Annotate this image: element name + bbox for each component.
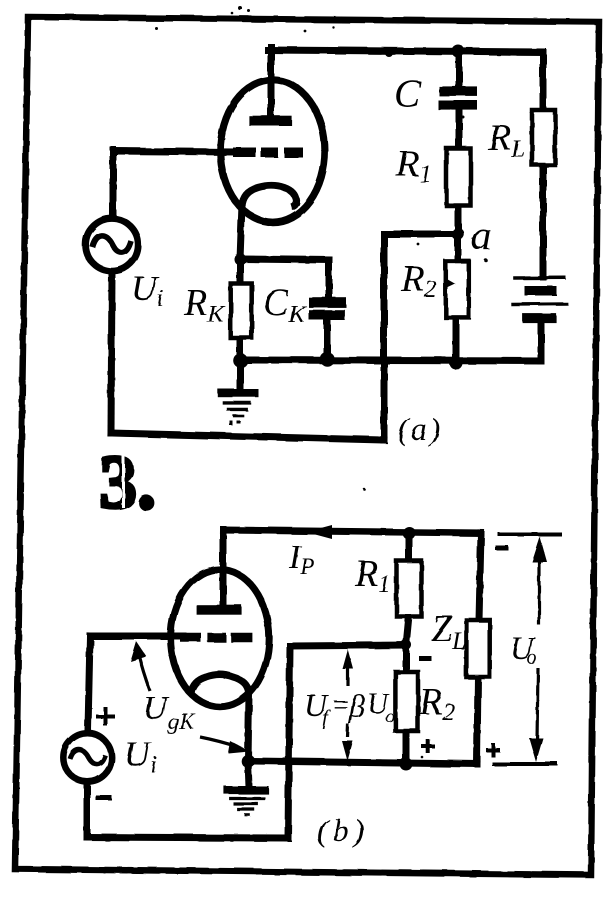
svg-text:(a): (a) <box>398 411 443 447</box>
svg-text:β: β <box>348 688 365 724</box>
svg-text:a: a <box>471 212 492 258</box>
svg-text:C: C <box>394 71 422 116</box>
svg-text:(b): (b) <box>317 812 369 848</box>
svg-text:=: = <box>331 690 350 721</box>
svg-text:3.: 3. <box>99 441 156 525</box>
svg-text:o: o <box>527 647 537 669</box>
svg-text:o: o <box>385 706 395 727</box>
